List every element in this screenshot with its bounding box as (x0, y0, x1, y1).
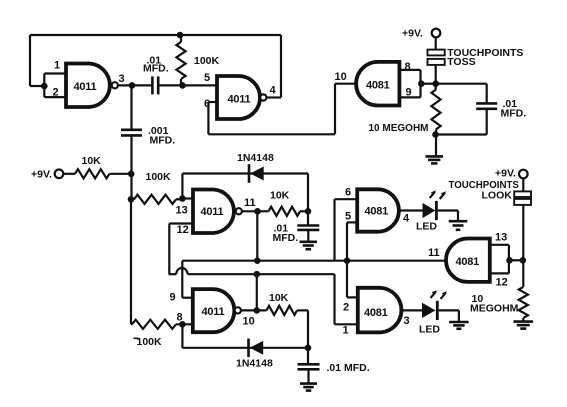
node top rail / R2 (177, 32, 184, 39)
capacitor C5 .01 MFD (298, 364, 320, 369)
svg-text:1: 1 (54, 60, 60, 72)
value label .001 MFD (C2) (148, 125, 175, 147)
wire pin13 node up to D1 (181, 174, 183, 199)
touchpoint LOOK pad lower (514, 199, 531, 205)
svg-text:4011: 4011 (202, 306, 225, 318)
wire R6 corner down to D2 node (307, 310, 309, 347)
svg-text:10K: 10K (270, 190, 290, 202)
svg-text:11: 11 (244, 197, 256, 209)
wire pin5 U1b (183, 84, 218, 86)
wire pin5 U2b (347, 222, 357, 260)
svg-text:10K: 10K (82, 155, 102, 167)
svg-text:13: 13 (495, 232, 507, 244)
terminal +9V toss (432, 29, 441, 38)
svg-text:MEGOHM: MEGOHM (470, 303, 519, 315)
node U1a input junction (41, 83, 48, 90)
wire A left vertical to pin9 (181, 261, 183, 298)
led LED1 (423, 190, 447, 220)
node bracket U2c (418, 80, 425, 87)
svg-text:1N4148: 1N4148 (237, 152, 274, 164)
svg-text:12: 12 (177, 224, 189, 236)
svg-text:4011: 4011 (228, 94, 251, 106)
node pin8 junction (179, 321, 186, 328)
svg-text:12: 12 (496, 277, 508, 289)
svg-text:LOOK: LOOK (482, 190, 513, 202)
wire D1 rail down to node (307, 174, 309, 212)
resistor R8 10 MEGOHM (519, 287, 528, 318)
svg-text:100K: 100K (146, 171, 172, 183)
resistor R4 100K (131, 320, 193, 329)
resistor R3 100K (134, 195, 182, 204)
svg-text:5: 5 (204, 72, 210, 84)
capacitor C3 .01 MFD (476, 103, 497, 108)
ground R8 (513, 322, 533, 329)
node touch look junction (520, 257, 527, 264)
resistor R2 100K (176, 35, 185, 85)
svg-text:4: 4 (403, 213, 410, 225)
nand-gate U1c 4011 pins 13,12,11 (193, 190, 242, 234)
resistor R1 10K (63, 169, 131, 178)
wire pin9 U1d (182, 297, 193, 299)
resistor R5 10K (269, 207, 301, 216)
node R3 / rail (128, 196, 135, 203)
svg-text:4011: 4011 (201, 206, 224, 218)
svg-text:+9V.: +9V. (402, 28, 423, 40)
value label 10 MEGOHM (R8) (470, 293, 519, 315)
wire node down to C5 (307, 348, 309, 364)
svg-text:9: 9 (170, 292, 176, 304)
capacitor C2 .001 MFD (121, 130, 142, 136)
wire top feedback rail (30, 35, 281, 98)
value label 100K (R4) (134, 336, 163, 348)
value label .01 MFD (C4) (273, 223, 299, 245)
svg-text:8: 8 (405, 61, 411, 73)
resistor R6 10K (267, 306, 298, 315)
svg-text:100K: 100K (137, 336, 163, 348)
wire node A down to C2 (130, 85, 132, 129)
wire U1c output down to wire A (256, 211, 258, 260)
node wire B / U1d out (253, 271, 260, 278)
svg-text:MFD.: MFD. (143, 63, 169, 75)
ground C4 (300, 242, 318, 249)
wire pin6 U1b to U2c output (208, 84, 356, 135)
wire node to C3 (436, 84, 487, 104)
terminal +9V look (519, 170, 528, 179)
led LED2 (422, 290, 447, 320)
wire U1a input from feedback (30, 85, 44, 87)
wire pins5-2 vertical (346, 261, 348, 298)
wire pin12 U1c to wire B (169, 224, 193, 275)
svg-text:TOSS: TOSS (447, 56, 475, 68)
wire U2b output to LED1 (399, 209, 423, 211)
wire pin6 U2b (335, 199, 358, 261)
wire U2d pins 13-12 bracket (490, 245, 523, 274)
svg-text:1N4148: 1N4148 (236, 358, 273, 370)
svg-text:4011: 4011 (74, 81, 97, 93)
wire pin13 U1c (182, 197, 193, 199)
wire C3 down to R7 bottom (436, 109, 487, 135)
svg-text:100K: 100K (194, 55, 220, 67)
wire C2 to left rail (130, 135, 132, 199)
svg-text:4081: 4081 (366, 80, 390, 92)
node R1 / rail (128, 171, 135, 178)
and-gate U2c 4081 pins 8,9,10 (mirrored) (356, 62, 399, 106)
diode D1 1N4148 (249, 164, 264, 183)
capacitor C1 .01 MFD (152, 76, 158, 94)
ground LED1 (449, 221, 468, 230)
nand-gate U1b 4011 pins 5,6,4 (217, 76, 266, 119)
svg-text:MFD.: MFD. (501, 108, 527, 120)
node wire A / pins 5-2 (344, 257, 351, 264)
touchpoint TOSS pad upper (428, 50, 445, 56)
node wire A / U1c out (254, 257, 261, 264)
wire D2 rail (182, 347, 308, 349)
wire C1 to node B (158, 84, 182, 86)
wire U1a input bracket pins 1-2 (44, 74, 66, 98)
svg-text:10: 10 (335, 71, 347, 83)
svg-text:MFD.: MFD. (273, 232, 299, 244)
wire pin2 U2a (347, 296, 358, 298)
node pin11 output (254, 208, 261, 215)
svg-text:3: 3 (404, 315, 410, 327)
wire U1b output to feedback (267, 96, 281, 98)
wire A (set line) (182, 260, 446, 262)
value label .01 MFD (C3) (501, 98, 527, 120)
and-gate U2b 4081 pins 5,6,4 (357, 189, 399, 231)
wire C5 to ground (307, 369, 309, 383)
svg-text:10K: 10K (269, 292, 289, 304)
node A oscillator (pin3) (129, 82, 136, 89)
wire U2c pins 8-9 bracket (399, 70, 436, 98)
svg-text:+9V.: +9V. (495, 168, 516, 180)
node touch toss junction (432, 80, 439, 87)
svg-text:5: 5 (345, 211, 351, 223)
wire terminal to touchpoints look (522, 178, 524, 191)
svg-text:LED: LED (419, 324, 440, 336)
wire terminal to touchpoints toss (435, 37, 437, 49)
svg-text:4081: 4081 (365, 206, 389, 218)
ground C5 (300, 384, 317, 391)
value label .01 MFD (C1) (143, 55, 169, 75)
wire touchpoints to look node (522, 205, 524, 287)
wire B with hopover (169, 268, 335, 274)
and-gate U2a 4081 pins 2,1,3 (358, 288, 402, 333)
wire touchpoints to node (435, 65, 437, 90)
svg-text:6: 6 (345, 187, 351, 199)
wire left rail down (130, 199, 132, 324)
svg-text:11: 11 (428, 247, 440, 259)
wire U1d output (241, 309, 267, 311)
terminal +9V left (55, 170, 64, 179)
resistor R7 10 MEGOHM (431, 90, 440, 130)
svg-text:13: 13 (176, 205, 188, 217)
svg-text:4081: 4081 (456, 256, 480, 268)
node bracket U2d (506, 257, 513, 264)
wire B corner down to pin1 (335, 274, 358, 324)
node R5/C4/D1 (305, 208, 312, 215)
ground LED2 (449, 322, 469, 329)
svg-text:+9V.: +9V. (31, 169, 52, 181)
wire U2a output to LED2 (401, 309, 422, 311)
node pin10 output (253, 307, 260, 314)
svg-text:LED: LED (416, 221, 437, 233)
wire LED1 to ground (438, 211, 458, 221)
node B (R2/C1/pin5) (179, 82, 186, 89)
touchpoint TOSS pad lower (428, 59, 445, 65)
svg-text:.01 MFD.: .01 MFD. (327, 362, 370, 374)
svg-text:4081: 4081 (364, 307, 388, 319)
node pin13 junction (179, 195, 186, 202)
node R7 bottom (432, 131, 439, 138)
wire U1a output (118, 84, 152, 86)
svg-text:3: 3 (119, 73, 125, 85)
node R6/C5/D2 (305, 345, 312, 352)
wire D1 anode/cathode rail (182, 172, 308, 174)
touchpoint LOOK pad upper (514, 191, 531, 197)
ground R7 (425, 156, 443, 163)
wire pin8 node down to D2 (181, 324, 183, 348)
nand-gate U1a 4011 pins 1,2,3 (66, 64, 118, 108)
wire U1d output up to wire B (256, 274, 258, 310)
and-gate U2d 4081 pins 13,12,11 (mirrored) (446, 239, 490, 282)
svg-text:10 MEGOHM: 10 MEGOHM (369, 123, 429, 134)
wire U1c output (242, 210, 269, 212)
wire LED2 to ground (439, 310, 459, 321)
svg-text:2: 2 (53, 87, 59, 99)
capacitor C4 .01 MFD (297, 226, 319, 230)
svg-text:2: 2 (343, 302, 349, 314)
wire node down to C4 (307, 211, 309, 225)
diode D2 1N4148 (249, 339, 264, 358)
svg-text:MFD.: MFD. (150, 135, 176, 147)
svg-text:10: 10 (243, 316, 255, 328)
wire C4 to ground (307, 230, 309, 241)
svg-text:4: 4 (270, 85, 277, 97)
nand-gate U1d 4011 pins 9,8,10 (193, 289, 241, 332)
svg-text:1: 1 (343, 325, 349, 337)
